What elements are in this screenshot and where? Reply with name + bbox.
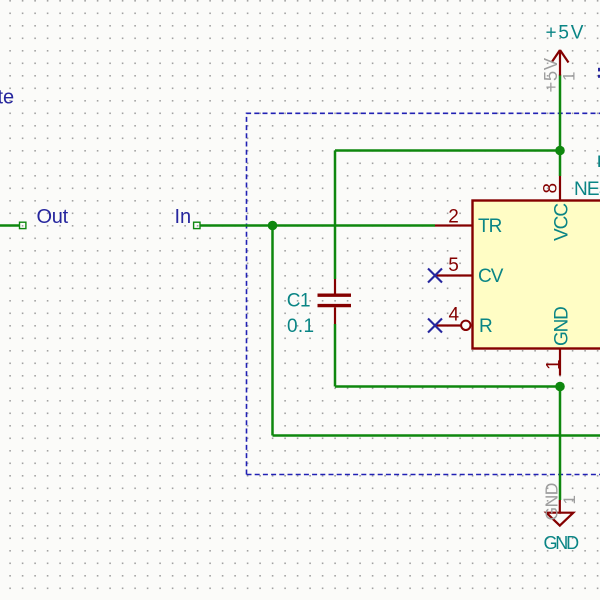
wire +5V vertical [559, 75, 562, 177]
no-connect X on pin 4 [428, 319, 442, 333]
clipped teal text fragment at right edge [598, 156, 600, 168]
svg-text:VCC: VCC [552, 204, 573, 241]
svg-text:GND: GND [542, 483, 562, 520]
pin 5 CV [435, 274, 473, 276]
wire bottom horizontal to right edge [273, 434, 600, 437]
svg-text:In: In [175, 206, 192, 228]
wire Out stub [0, 224, 20, 227]
pin 2 TR [435, 224, 473, 226]
unconnected end square (Out) [20, 222, 26, 228]
svg-text:GND: GND [544, 533, 580, 553]
junction at GND net [555, 382, 565, 392]
svg-text:2: 2 [448, 207, 459, 228]
wire C1 bottom down [334, 324, 337, 387]
wire In to pin TR [200, 224, 435, 227]
clipped blue label fragment at right edge [598, 68, 600, 78]
svg-text:4: 4 [449, 305, 460, 326]
svg-text:TR: TR [478, 216, 502, 237]
svg-text:0.1: 0.1 [287, 316, 314, 337]
svg-text:R: R [479, 316, 493, 337]
capacitor C1 bottom lead [334, 307, 336, 324]
svg-text:1: 1 [560, 495, 579, 504]
capacitor C1 top lead [334, 279, 336, 294]
svg-text:+5V: +5V [540, 57, 561, 92]
svg-text:Out: Out [37, 206, 69, 228]
wire down to GND symbol [559, 387, 562, 501]
no-connect X on pin 5 [428, 269, 442, 283]
power symbol GND [559, 500, 561, 513]
svg-text:1: 1 [544, 359, 565, 370]
wire C1 to pin1 junction [335, 385, 560, 388]
capacitor C1 bottom plate [318, 304, 352, 307]
junction at VCC [555, 146, 565, 156]
svg-text:5: 5 [448, 255, 459, 276]
wire down to C1 top [334, 151, 337, 280]
wire junction down [271, 226, 274, 436]
capacitor C1 top plate [318, 294, 352, 297]
dashed selection rectangle [247, 113, 600, 474]
inversion bubble pin 4 [461, 321, 470, 330]
svg-text:te: te [0, 87, 14, 109]
svg-text:C1: C1 [287, 290, 310, 311]
power symbol +5V [552, 50, 569, 76]
IC U1 NE555 body [473, 201, 600, 349]
pin 4 R (inverted) [435, 324, 461, 326]
svg-text:NE55: NE55 [574, 179, 600, 200]
pin 1 GND [559, 349, 561, 376]
svg-text:8: 8 [541, 183, 562, 194]
svg-text:+5V: +5V [546, 23, 586, 44]
wire VCC horizontal [335, 149, 560, 152]
unconnected end square (In) [194, 222, 200, 228]
svg-text:GND: GND [552, 307, 573, 346]
pin 8 VCC [559, 176, 561, 201]
svg-text:CV: CV [478, 266, 504, 287]
junction on In wire [268, 221, 278, 231]
svg-text:1: 1 [560, 72, 579, 81]
